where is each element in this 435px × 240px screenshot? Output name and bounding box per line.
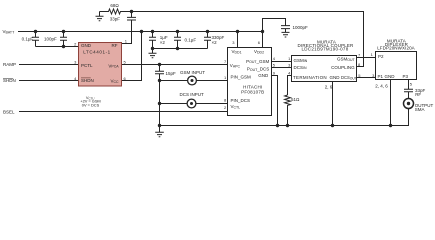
pin numbers	[74, 39, 413, 110]
wire VDD2 pin6	[262, 32, 264, 48]
IC U1 labels	[81, 43, 119, 84]
svg-text:100pF: 100pF	[44, 36, 57, 41]
ground G2	[149, 49, 157, 58]
svg-text:GND: GND	[385, 74, 396, 79]
svg-text:8: 8	[224, 97, 227, 102]
node dot rail coupler gnd	[331, 124, 334, 127]
svg-text:PF08107B: PF08107B	[241, 90, 264, 95]
wire SHDN to pin4	[19, 80, 79, 82]
wire POUT_DCS to DCSIN	[272, 67, 292, 69]
capacitor 100pF input	[60, 32, 67, 47]
ground G4	[155, 126, 164, 137]
connector GSM INPUT	[188, 76, 197, 85]
connector RF OUTPUT SMA	[404, 99, 414, 109]
svg-text:3: 3	[232, 40, 235, 45]
wire GSM input row	[160, 80, 228, 82]
coupler labels	[293, 40, 357, 90]
svg-text:DCSIN: DCSIN	[294, 65, 307, 70]
svg-text:6: 6	[258, 40, 261, 45]
svg-text:TERMINATION: TERMINATION	[293, 75, 327, 80]
svg-text:VPCA: VPCA	[108, 63, 119, 68]
node dot rail 330pF	[206, 30, 209, 33]
ground G1	[96, 12, 104, 21]
svg-text:DCS INPUT: DCS INPUT	[180, 92, 205, 97]
svg-text:2, 4, 6: 2, 4, 6	[375, 83, 388, 88]
svg-text:LFDP20NWXI20A: LFDP20NWXI20A	[377, 46, 415, 51]
wire ground bus upper	[159, 65, 161, 72]
wire input caps bottom to GND pin2	[36, 46, 79, 48]
ground G3	[282, 32, 290, 37]
svg-text:GSM INPUT: GSM INPUT	[180, 70, 205, 75]
capacitor 330pF x2	[204, 32, 211, 49]
svg-text:RF: RF	[112, 43, 118, 48]
node dot bus GSM	[158, 79, 161, 82]
Murata diplexer box	[376, 52, 417, 80]
wire diplexer GND down	[390, 80, 392, 126]
svg-text:VBATT: VBATT	[3, 29, 16, 34]
svg-text:PCTL: PCTL	[81, 63, 93, 68]
connector DCS INPUT	[187, 99, 196, 108]
wire top sense line	[132, 12, 364, 68]
svg-text:3: 3	[288, 62, 291, 67]
capacitor 33pF	[127, 17, 136, 20]
svg-text:VDD2: VDD2	[254, 49, 264, 54]
svg-text:VCC: VCC	[111, 78, 120, 83]
Murata directional coupler box	[292, 56, 357, 82]
wire GND pin9 down	[272, 76, 278, 126]
wire VBATT rail	[18, 31, 263, 33]
svg-text:P1: P1	[378, 74, 384, 79]
svg-text:RF: RF	[415, 92, 421, 97]
svg-text:7: 7	[358, 53, 361, 58]
node dot caps bus gnd	[151, 47, 154, 50]
svg-text:P2: P2	[378, 54, 384, 59]
node dot bus VPCA	[158, 63, 161, 66]
node dot caps bus mid	[176, 47, 179, 50]
svg-text:2: 2	[224, 105, 227, 110]
svg-text:15pF: 15pF	[166, 71, 177, 76]
wire GSMOUT to P2	[357, 57, 376, 59]
svg-text:RAMP: RAMP	[3, 62, 16, 67]
svg-text:VDD1: VDD1	[232, 49, 242, 54]
overline SHDN net	[3, 77, 13, 79]
svg-text:5: 5	[273, 62, 276, 67]
node dot caps bottom	[62, 45, 65, 48]
wire ground bus lower	[159, 74, 161, 126]
svg-text:GND: GND	[330, 75, 341, 80]
node dot VBATT cap1	[34, 30, 37, 33]
svg-text:DCSOUT: DCSOUT	[341, 75, 357, 80]
svg-text:5: 5	[410, 81, 413, 86]
svg-text:POUT_DCS: POUT_DCS	[247, 66, 269, 71]
svg-text:7: 7	[224, 59, 227, 64]
svg-text:4: 4	[288, 70, 291, 75]
capacitor 1000pF	[281, 26, 290, 33]
node dot bus rail	[158, 124, 161, 127]
svg-text:0V = DCS: 0V = DCS	[82, 102, 100, 107]
svg-text:×2: ×2	[160, 40, 166, 45]
wire TERMINATION to 51ohm	[288, 76, 292, 96]
resistor 51ohm	[285, 95, 291, 126]
node dot bus DCS	[158, 102, 161, 105]
node dot rail diplexer gnd	[389, 124, 392, 127]
svg-text:1: 1	[371, 52, 374, 57]
svg-text:PIN_GSM: PIN_GSM	[231, 75, 252, 80]
svg-text:GSMIN: GSMIN	[294, 58, 308, 63]
svg-text:GND: GND	[258, 73, 269, 78]
svg-text:VAPC: VAPC	[230, 63, 241, 68]
svg-text:33pF: 33pF	[110, 16, 121, 21]
wire RF pin jog	[122, 20, 132, 44]
svg-text:9: 9	[273, 70, 276, 75]
wire RAMP to PCTL	[19, 64, 79, 66]
wire DCSOUT to P1	[357, 77, 376, 79]
svg-text:1: 1	[125, 39, 128, 44]
svg-text:P3: P3	[403, 74, 409, 79]
wire DCS input row	[160, 103, 228, 105]
svg-text:5: 5	[124, 59, 127, 64]
resistor 68ohm	[100, 9, 132, 14]
svg-text:0.1μF: 0.1μF	[185, 38, 197, 43]
overline SHDN pin	[81, 77, 91, 79]
IC U1 LTC4401-1	[79, 43, 122, 87]
svg-text:GND: GND	[81, 43, 92, 48]
wire coupler GND down	[332, 82, 334, 126]
wire P3 down	[408, 80, 410, 90]
svg-text:2: 2	[74, 42, 77, 47]
svg-text:SHDN: SHDN	[81, 78, 94, 83]
svg-text:4: 4	[273, 56, 276, 61]
PA module Hitachi PF08107B	[228, 48, 272, 116]
wire POUT_GSM to GSMIN	[272, 61, 292, 63]
node dot rail 1uF	[151, 30, 154, 33]
wire caps bottom bus	[153, 48, 208, 50]
capacitor 0.1uF input	[32, 32, 39, 47]
wire 33pF top lead	[131, 12, 133, 18]
svg-text:PIN_DCS: PIN_DCS	[231, 98, 251, 103]
wire BSEL to VCTL	[19, 111, 228, 113]
svg-text:1: 1	[224, 75, 227, 80]
node dot VCC rail	[140, 30, 143, 33]
svg-text:SHDN: SHDN	[3, 78, 16, 83]
node dot rail VDD2	[261, 30, 264, 33]
svg-text:0.1μF: 0.1μF	[22, 36, 34, 41]
svg-text:SMA: SMA	[415, 107, 425, 112]
node dot rail pin9	[276, 124, 279, 127]
wire 1000pF branch	[263, 19, 286, 32]
node dot VBATT cap2	[62, 30, 65, 33]
svg-text:VCTL: VCTL	[231, 104, 241, 109]
svg-text:2, 6: 2, 6	[325, 84, 333, 89]
node dot RF top	[130, 10, 133, 13]
svg-text:LTC4401-1: LTC4401-1	[83, 50, 111, 55]
wire VDD1 pin3	[237, 32, 239, 48]
svg-text:BSEL: BSEL	[3, 109, 15, 114]
node dot rail 51ohm	[286, 124, 289, 127]
svg-text:LDC21B97M190-078: LDC21B97M190-078	[301, 47, 348, 52]
PA module labels	[230, 49, 270, 110]
capacitor 15pF	[155, 71, 164, 74]
svg-text:3: 3	[74, 59, 77, 64]
node dot rail VDD1	[236, 30, 239, 33]
svg-text:1000pF: 1000pF	[293, 25, 309, 30]
capacitor 30pF output	[404, 89, 413, 98]
svg-text:68Ω: 68Ω	[110, 3, 119, 8]
capacitor 1uF x2	[149, 32, 156, 49]
wire coupling stub	[357, 66, 364, 68]
wire bottom ground rail	[160, 108, 409, 125]
wire VCC to VBATT rail	[122, 32, 142, 81]
capacitor 0.1uF	[174, 32, 181, 49]
svg-text:51Ω: 51Ω	[291, 97, 300, 102]
svg-text:1: 1	[288, 56, 291, 61]
wire VPCA to VAPC	[122, 64, 228, 66]
svg-text:COUPLING: COUPLING	[331, 65, 355, 70]
svg-text:GSMOUT: GSMOUT	[337, 57, 356, 62]
svg-text:POUT_GSM: POUT_GSM	[246, 59, 269, 64]
node dot rail 0.1uF	[176, 30, 179, 33]
svg-text:×2: ×2	[212, 40, 218, 45]
diplexer labels	[375, 38, 415, 88]
